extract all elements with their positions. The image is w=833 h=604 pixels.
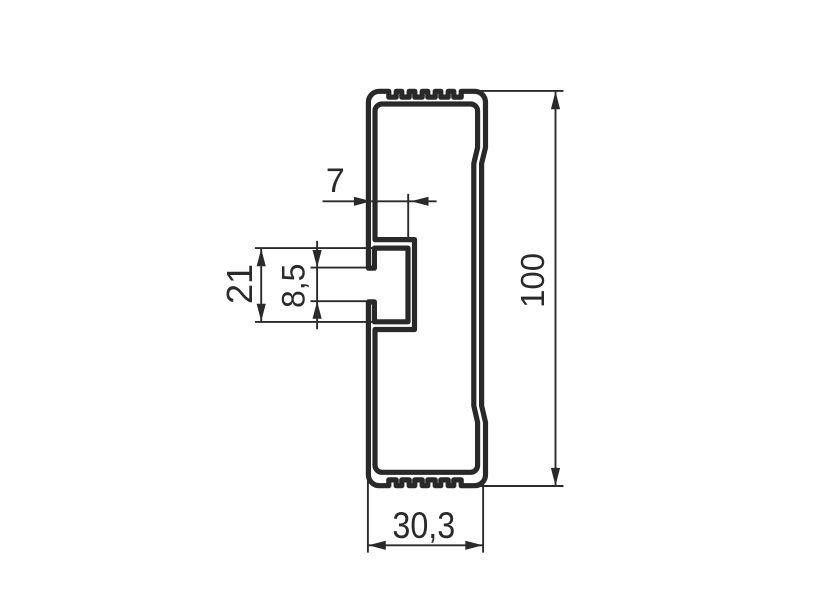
dimension 21	[255, 248, 373, 322]
svg-text:8,5: 8,5	[276, 264, 312, 308]
svg-text:7: 7	[326, 162, 345, 200]
profile inner contour	[375, 104, 478, 472]
dimension 30,3	[368, 478, 483, 553]
svg-text:30,3: 30,3	[392, 505, 455, 547]
dimension 100	[481, 91, 564, 487]
profile outer contour	[368, 91, 485, 485]
dimension 7	[323, 194, 437, 241]
svg-text:21: 21	[219, 264, 260, 304]
svg-text:100: 100	[514, 253, 551, 308]
dimension 8,5	[311, 241, 367, 329]
